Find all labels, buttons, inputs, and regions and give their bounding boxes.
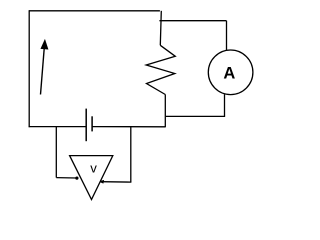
wire: bottom edge of main loop (left of battery) [29,126,86,128]
svg-text:A: A [223,65,235,83]
battery long plate (+) [85,109,87,142]
wire: left edge of main loop [28,10,30,127]
wire: right edge of main loop (top lead of resistor) [160,11,161,46]
voltmeter V triangle [70,156,113,200]
battery short plate (-) [91,116,93,131]
current direction arrow [41,40,49,95]
wire: ammeter bottom lead (vertical) [224,94,226,116]
wire: top edge of main loop [29,10,160,12]
ammeter U1 circle [208,50,253,95]
resistor (zigzag) [146,45,175,94]
arrowhead at voltmeter right terminal [99,180,105,184]
junction dot at voltmeter left terminal [75,177,78,180]
wire: bottom branch from ammeter back to resistor lead [166,115,225,117]
wire: bottom lead of resistor down to bottom edge [164,95,166,128]
wire: voltmeter loop left horizontal [56,177,76,179]
wire: top branch to ammeter (horizontal) [159,20,226,22]
wire: voltmeter loop left vertical [55,127,57,178]
wire: voltmeter loop right vertical [130,127,132,183]
wire: bottom edge of main loop (right of battery) [92,126,165,128]
wire: ammeter top lead (vertical) [226,21,228,51]
wire: voltmeter loop right horizontal [101,181,131,183]
svg-text:v: v [90,160,97,175]
